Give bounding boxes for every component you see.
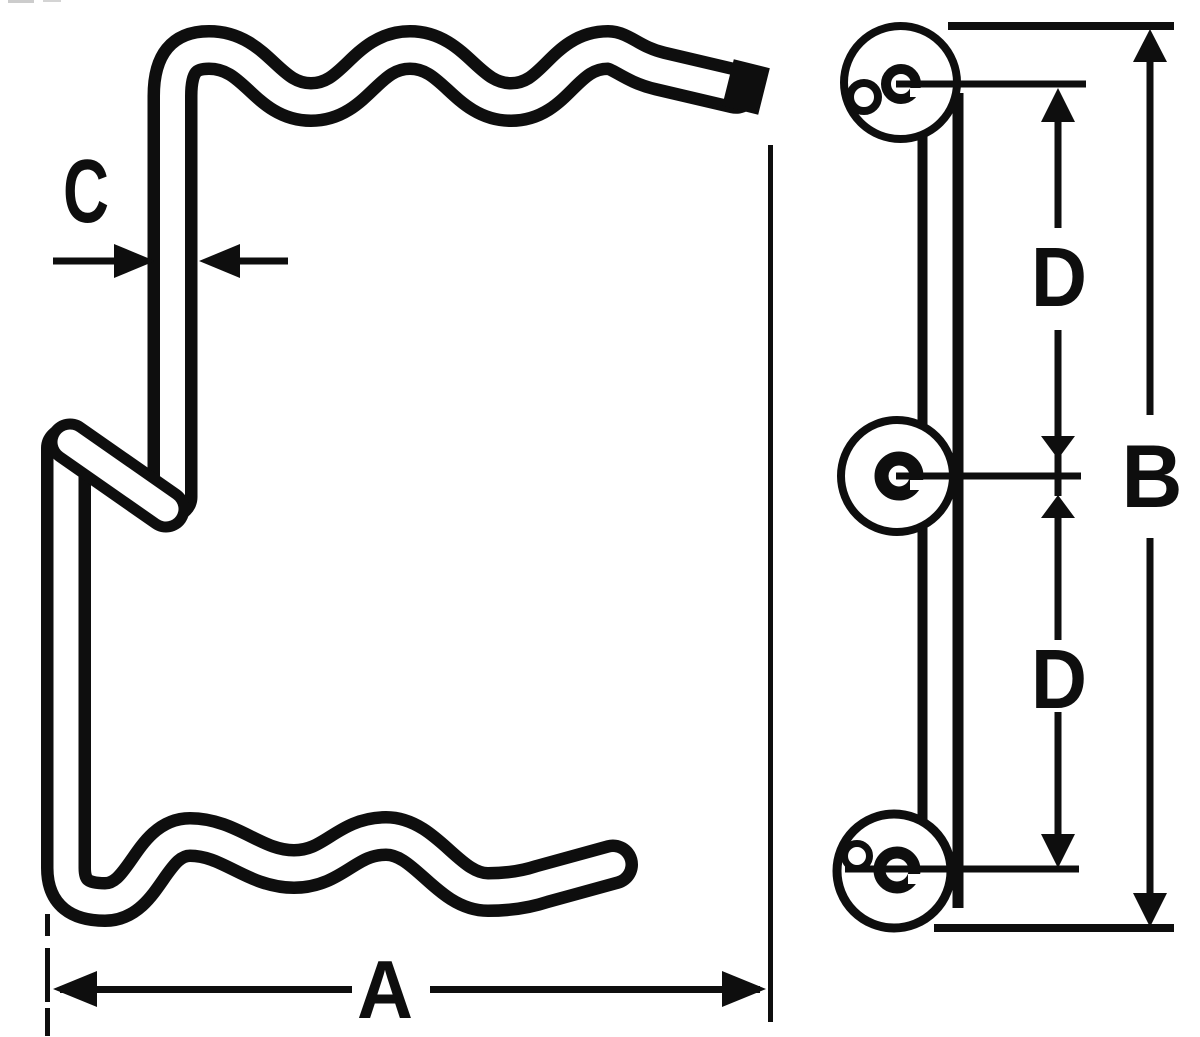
svg-text:B: B bbox=[1122, 426, 1183, 526]
dimension D upper: up arrow at top bbox=[1041, 88, 1075, 228]
dimension C: right arrow line bbox=[199, 244, 288, 278]
dimension A: arrow line left part bbox=[53, 971, 352, 1007]
svg-text:D: D bbox=[1031, 632, 1087, 726]
svg-text:C: C bbox=[63, 142, 109, 242]
side view: left edge line of vertical bar (behind loops) bbox=[918, 130, 928, 860]
leader line from bottom loop center bbox=[845, 866, 1079, 873]
leader line from top loop center bbox=[896, 81, 1086, 88]
dimension A: arrow line right part bbox=[430, 971, 766, 1007]
dimension A: right extension line bbox=[768, 145, 773, 1022]
dimension B: vertical line lower segment with down arrow bbox=[1133, 538, 1167, 927]
dimension B: vertical line upper segment with up arrow bbox=[1133, 29, 1167, 415]
dimension B: top extension line bbox=[948, 22, 1174, 30]
side view: bottom loop circle bbox=[837, 814, 951, 928]
wire front view: lower vertical leg + bottom wavy run bbox=[66, 448, 613, 902]
side view: top loop circle bbox=[844, 26, 957, 139]
leader line from middle loop center bbox=[896, 473, 1081, 480]
svg-text:A: A bbox=[357, 943, 413, 1036]
side view: top loop wire cross-section dot bbox=[850, 83, 878, 111]
dimension C: left arrow line bbox=[53, 244, 155, 278]
wire front view: top wavy run + upper vertical leg bbox=[173, 50, 737, 497]
side view: middle loop wire-end ring bbox=[882, 459, 917, 494]
side view: bottom loop wire-end ring bbox=[880, 853, 915, 888]
dimension D lower: up arrow at middle line bbox=[1041, 495, 1075, 640]
wire front view: Z-bend diagonal segment (drawn in front) bbox=[70, 442, 166, 509]
dimension D upper: down arrow at middle line bbox=[1041, 330, 1075, 496]
side view: middle loop circle bbox=[841, 420, 953, 532]
dimension B: bottom extension line bbox=[934, 924, 1174, 932]
wire end: solid black tip (upper right) bbox=[728, 83, 764, 92]
side view: top loop wire-end ring bbox=[886, 69, 916, 99]
side view: right edge line of vertical bar (in front of loops) bbox=[953, 93, 964, 908]
svg-text:D: D bbox=[1031, 230, 1087, 324]
side view: bottom loop wire cross-section dot bbox=[845, 844, 870, 869]
dimension A: left extension line (dashed) bbox=[45, 914, 50, 1036]
dimension D lower: down arrow at bottom line bbox=[1041, 712, 1075, 868]
scan smudge top-left bbox=[8, 0, 61, 3]
